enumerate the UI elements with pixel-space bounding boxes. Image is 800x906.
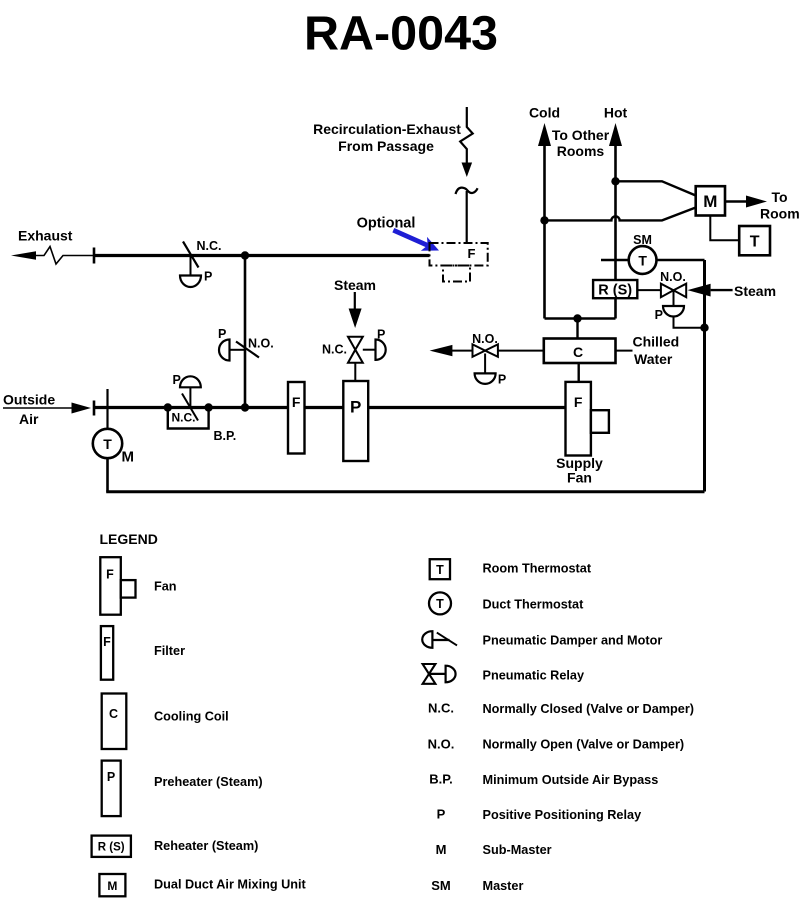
recirculation inlet wire xyxy=(460,107,473,177)
svg-text:Pneumatic Relay: Pneumatic Relay xyxy=(483,669,585,683)
svg-text:P: P xyxy=(377,328,385,342)
damper N.O. riser xyxy=(219,340,259,361)
thermostat TM stem xyxy=(106,389,108,430)
label SM master xyxy=(633,233,652,247)
svg-text:P: P xyxy=(437,807,446,822)
svg-text:Minimum Outside Air Bypass: Minimum Outside Air Bypass xyxy=(483,773,659,787)
svg-text:T: T xyxy=(103,436,112,452)
svg-text:N.O.: N.O. xyxy=(428,737,455,752)
svg-text:P: P xyxy=(107,770,115,784)
svg-text:Reheater (Steam): Reheater (Steam) xyxy=(154,839,258,853)
node Outside Air label xyxy=(3,392,55,428)
svg-text:Rooms: Rooms xyxy=(557,143,605,159)
junction coil feed xyxy=(573,314,581,322)
svg-text:N.C.: N.C. xyxy=(322,343,347,357)
svg-text:Room Thermostat: Room Thermostat xyxy=(483,562,592,576)
supply fan F2 xyxy=(566,382,609,456)
label N.C. bypass damper xyxy=(172,411,196,425)
label N.O. reheat valve xyxy=(660,270,686,284)
svg-text:Cooling Coil: Cooling Coil xyxy=(154,710,229,724)
wire reheater to valve xyxy=(637,289,661,291)
svg-text:N.C.: N.C. xyxy=(172,411,196,425)
legend label Pneumatic Relay xyxy=(483,669,585,683)
junction relay-feedback xyxy=(700,324,708,332)
legend label Reheater xyxy=(154,839,258,853)
legend reheater symbol xyxy=(92,836,131,857)
legend label Room Thermostat xyxy=(483,562,592,576)
junction exhaust-riser xyxy=(241,251,249,259)
damper N.C. exhaust blade xyxy=(180,242,201,288)
label P bypass damper xyxy=(173,373,181,387)
legend label Fan xyxy=(154,580,177,594)
optional filter F (dashed) xyxy=(430,243,488,266)
svg-text:P: P xyxy=(173,373,181,387)
label P chilled valve relay xyxy=(498,373,506,387)
node Cold label xyxy=(529,105,560,121)
LEGEND heading xyxy=(100,531,158,547)
supply duct end tick xyxy=(93,401,96,416)
svg-text:Exhaust: Exhaust xyxy=(18,228,73,244)
svg-text:Recirculation-Exhaust: Recirculation-Exhaust xyxy=(313,121,461,137)
wire exhaust duct xyxy=(94,254,430,257)
mixing unit M xyxy=(696,186,725,215)
legend key M xyxy=(436,842,447,857)
label N.O. riser damper xyxy=(248,337,274,351)
label To Other Rooms xyxy=(552,127,610,159)
label Optional xyxy=(357,216,416,232)
svg-text:N.O.: N.O. xyxy=(472,332,498,346)
label N.C. exhaust damper xyxy=(197,239,222,253)
legend damper motor symbol xyxy=(422,631,457,648)
junction riser-supply xyxy=(241,403,249,411)
svg-text:R (S): R (S) xyxy=(98,842,125,854)
node Steam reheat label xyxy=(734,283,776,299)
node Chilled Water label xyxy=(633,334,680,368)
svg-text:Sub-Master: Sub-Master xyxy=(483,843,552,857)
svg-text:Optional: Optional xyxy=(357,216,416,232)
junction cold takeoff xyxy=(540,216,548,224)
wire hot to mixing box xyxy=(616,181,696,195)
svg-text:Duct Thermostat: Duct Thermostat xyxy=(483,598,585,612)
steam supply arrow xyxy=(349,292,362,328)
hot duct riser xyxy=(609,123,622,319)
svg-text:P: P xyxy=(498,373,506,387)
legend label Master xyxy=(483,879,524,893)
legend label Cooling Coil xyxy=(154,710,229,724)
junction bypass right xyxy=(204,403,212,411)
wire recirculation riser xyxy=(244,256,247,408)
optional callout blue arrow xyxy=(390,223,442,257)
svg-text:Preheater (Steam): Preheater (Steam) xyxy=(154,775,263,789)
svg-text:M: M xyxy=(703,192,717,211)
svg-text:Steam: Steam xyxy=(734,283,776,299)
svg-text:LEGEND: LEGEND xyxy=(100,531,158,547)
legend key N.O. xyxy=(428,737,455,752)
legend pneumatic relay symbol xyxy=(423,664,456,684)
legend room thermostat symbol xyxy=(430,559,450,579)
label P exhaust damper xyxy=(204,270,212,284)
svg-text:P: P xyxy=(218,327,226,341)
wire thermostat to feedback xyxy=(657,259,705,262)
legend label Minimum Outside Air Bypass xyxy=(483,773,659,787)
svg-text:N.O.: N.O. xyxy=(248,337,274,351)
svg-text:Room: Room xyxy=(760,206,800,222)
legend filter symbol xyxy=(101,626,113,680)
wire coil to chilled valve xyxy=(498,350,544,352)
chilled water return arrow xyxy=(430,345,473,356)
svg-text:N.C.: N.C. xyxy=(428,701,454,716)
legend label Dual Duct xyxy=(154,878,307,892)
label P riser damper xyxy=(218,327,226,341)
svg-text:Chilled: Chilled xyxy=(633,334,680,350)
wire M to room thermostat xyxy=(710,216,739,241)
legend key N.C. xyxy=(428,701,454,716)
optional filter lower box (dashed) xyxy=(443,266,470,282)
break squiggle xyxy=(456,188,478,194)
svg-text:To Other: To Other xyxy=(552,127,610,143)
svg-text:Steam: Steam xyxy=(334,277,376,293)
preheater P1 xyxy=(343,381,368,461)
filter F1 xyxy=(288,382,305,454)
svg-text:Air: Air xyxy=(19,411,39,427)
wire cold to mixing box with hop xyxy=(545,208,696,221)
label N.O. chilled valve xyxy=(472,332,498,346)
svg-text:B.P.: B.P. xyxy=(214,429,237,443)
wire coil to chilled water xyxy=(616,350,633,352)
svg-text:Master: Master xyxy=(483,879,524,893)
legend cooling coil symbol xyxy=(102,694,127,750)
outside air flow arrow xyxy=(3,403,91,414)
svg-text:Filter: Filter xyxy=(154,644,185,658)
node Exhaust label xyxy=(18,228,73,244)
legend key SM xyxy=(431,878,451,893)
valve N.O. chilled water xyxy=(473,344,498,384)
svg-text:Pneumatic Damper and Motor: Pneumatic Damper and Motor xyxy=(483,634,663,648)
exhaust flow arrow xyxy=(11,247,94,265)
legend label Filter xyxy=(154,644,185,658)
damper N.C. bypass xyxy=(180,376,201,420)
svg-text:P: P xyxy=(655,308,663,322)
bypass duct B.P. xyxy=(168,408,209,429)
legend key P xyxy=(437,807,446,822)
svg-text:Water: Water xyxy=(634,351,673,367)
label To Room xyxy=(760,189,800,222)
label N.C. steam valve xyxy=(322,343,347,357)
svg-text:Cold: Cold xyxy=(529,105,560,121)
svg-text:T: T xyxy=(436,597,444,611)
svg-text:Fan: Fan xyxy=(154,580,177,594)
wire relay to feedback riser xyxy=(674,317,705,328)
wire to optional filter xyxy=(466,191,468,243)
svg-text:N.O.: N.O. xyxy=(660,270,686,284)
svg-text:M: M xyxy=(436,842,447,857)
svg-text:Normally Closed (Valve or Damp: Normally Closed (Valve or Damper) xyxy=(483,702,695,716)
junction hot takeoff xyxy=(611,177,619,185)
label P steam valve relay xyxy=(377,328,385,342)
legend label Normally Open xyxy=(483,738,685,752)
wire feedback bottom run xyxy=(106,490,704,493)
reheater R (S) xyxy=(593,280,637,299)
steam inlet arrow reheat xyxy=(688,284,733,297)
duct thermostat T master xyxy=(629,246,657,274)
svg-text:C: C xyxy=(109,707,118,721)
legend label Preheater xyxy=(154,775,263,789)
svg-text:T: T xyxy=(750,234,760,251)
wire feedback riser xyxy=(703,260,706,492)
label Supply Fan xyxy=(556,455,603,486)
svg-text:M: M xyxy=(122,449,135,466)
legend label Normally Closed xyxy=(483,702,695,716)
wire feedback bottom xyxy=(106,458,109,492)
node Recirculation-Exhaust From Passage xyxy=(313,121,461,154)
svg-text:F: F xyxy=(103,635,111,649)
legend label Positive Positioning Relay xyxy=(483,808,642,822)
legend fan symbol xyxy=(100,557,135,615)
title RA-0043 xyxy=(304,7,498,61)
legend key B.P. xyxy=(429,772,453,787)
legend preheater symbol xyxy=(102,761,121,817)
svg-text:M: M xyxy=(107,879,117,893)
svg-text:Dual Duct Air Mixing Unit: Dual Duct Air Mixing Unit xyxy=(154,878,307,892)
svg-text:From Passage: From Passage xyxy=(338,138,434,154)
svg-text:F: F xyxy=(468,246,476,261)
label M submaster xyxy=(122,449,135,466)
svg-text:Fan: Fan xyxy=(567,470,592,486)
label P reheat valve relay xyxy=(655,308,663,322)
svg-text:To: To xyxy=(772,189,788,205)
legend label Duct Thermostat xyxy=(483,598,585,612)
svg-text:Positive Positioning Relay: Positive Positioning Relay xyxy=(483,808,642,822)
to room arrow xyxy=(725,196,767,208)
svg-text:P: P xyxy=(350,398,361,417)
valve N.O. reheat steam xyxy=(661,284,686,317)
svg-text:F: F xyxy=(292,394,301,410)
wire supply duct xyxy=(94,406,566,409)
wire cold-hot connector xyxy=(545,317,616,320)
svg-text:F: F xyxy=(106,568,114,582)
legend mixing unit symbol xyxy=(99,874,125,896)
valve N.C. steam preheater xyxy=(348,337,386,381)
svg-text:T: T xyxy=(436,563,444,577)
svg-text:C: C xyxy=(573,344,583,360)
svg-text:P: P xyxy=(204,270,212,284)
legend label Sub-Master xyxy=(483,843,552,857)
svg-text:T: T xyxy=(638,253,647,269)
node Steam supply label xyxy=(334,277,376,293)
svg-text:Normally Open (Valve or Damper: Normally Open (Valve or Damper) xyxy=(483,738,685,752)
legend duct thermostat symbol xyxy=(429,592,451,614)
junction bypass left xyxy=(164,403,172,411)
thermostat T (M) circle xyxy=(93,429,122,458)
cold duct riser xyxy=(538,123,551,319)
svg-text:Hot: Hot xyxy=(604,105,628,121)
svg-text:SM: SM xyxy=(431,878,451,893)
svg-text:R (S): R (S) xyxy=(598,283,632,299)
node Hot label xyxy=(604,105,628,121)
svg-text:N.C.: N.C. xyxy=(197,239,222,253)
legend label Pneumatic Damper xyxy=(483,634,663,648)
exhaust duct end tick xyxy=(93,248,96,264)
svg-text:B.P.: B.P. xyxy=(429,772,453,787)
wire connector to coil xyxy=(576,319,578,339)
svg-text:Outside: Outside xyxy=(3,392,55,408)
room thermostat T xyxy=(739,226,770,255)
svg-text:F: F xyxy=(574,394,583,410)
label B.P. xyxy=(214,429,237,443)
wire coil to supply fan xyxy=(578,363,580,382)
svg-text:RA-0043: RA-0043 xyxy=(304,7,498,61)
duct thermostat stub xyxy=(601,259,629,261)
cooling coil C xyxy=(544,339,616,364)
